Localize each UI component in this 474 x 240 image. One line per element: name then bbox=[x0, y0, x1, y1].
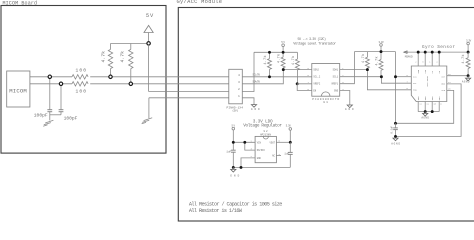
ground GND arrow at LDO bbox=[230, 167, 239, 177]
svg-text:5V: 5V bbox=[146, 13, 154, 19]
svg-text:SCL_2: SCL_2 bbox=[313, 76, 321, 79]
wire pullup rail to 5V bbox=[111, 43, 149, 45]
wire gyro bottom pin stubs bbox=[418, 102, 439, 112]
wire ON/OFF tie to VIN bbox=[245, 142, 255, 150]
wire gyro bottom gnd bus bbox=[418, 111, 439, 113]
svg-text:AGND: AGND bbox=[421, 117, 429, 120]
svg-text:4.7k: 4.7k bbox=[119, 51, 125, 63]
ground AGND arrow at cap bbox=[391, 138, 400, 146]
junction dot 5V/VIN bbox=[232, 141, 235, 144]
wire GND row to gnd symbol bbox=[242, 98, 254, 105]
capacitor C4 1uF (input) bbox=[231, 150, 236, 167]
wire gnd return to gyro GND pin bbox=[396, 84, 462, 136]
svg-text:4.7k: 4.7k bbox=[375, 57, 380, 66]
op IC1 PCA9306 level translator bbox=[312, 64, 340, 105]
resistor R8 4.7k (SDA1 pullup) bbox=[365, 52, 369, 70]
ground GND arrow at IC1 bbox=[345, 105, 354, 111]
net flag at gyro rail left bbox=[404, 51, 413, 59]
svg-text:Voltage Regulator: Voltage Regulator bbox=[243, 124, 282, 129]
ground AGND arrow at gyro bottom bbox=[421, 112, 429, 120]
svg-text:GND: GND bbox=[230, 175, 239, 178]
supply 3.3V circle flag at rail bbox=[379, 41, 385, 52]
pin numbers IC1 left bbox=[308, 67, 310, 91]
ground AGND flag under INT node bbox=[462, 76, 471, 84]
wire 5V row bbox=[149, 91, 229, 93]
gyro U3 bbox=[411, 66, 447, 102]
svg-text:All Resistor is 1/16W: All Resistor is 1/16W bbox=[189, 208, 243, 214]
wire connector to IC1 SCL(5V) bbox=[242, 76, 311, 78]
resistor R10 4.7k (INT pullup) bbox=[466, 52, 470, 76]
svg-text:4.7k: 4.7k bbox=[291, 56, 296, 65]
svg-text:4.7k: 4.7k bbox=[361, 54, 366, 63]
svg-text:MICOM: MICOM bbox=[9, 87, 26, 94]
svg-text:VOUT: VOUT bbox=[269, 141, 275, 144]
wire gyro top pin stubs bbox=[418, 52, 439, 66]
svg-text:GND: GND bbox=[345, 108, 354, 111]
wire 5V pullup rail bbox=[254, 51, 297, 53]
supply 3.3V circle flag at VOUT bbox=[286, 125, 292, 143]
svg-text:5V: 5V bbox=[232, 125, 236, 128]
ground (hatched) left board bbox=[142, 118, 153, 124]
svg-text:Voltage Level Translator: Voltage Level Translator bbox=[293, 41, 336, 46]
supply 5V circle flag bbox=[281, 41, 285, 52]
resistor R6 4.7k (SDA 5V pullup) bbox=[281, 52, 285, 69]
svg-text:SCL1: SCL1 bbox=[333, 76, 339, 79]
svg-text:VIN: VIN bbox=[257, 141, 262, 144]
junction dot R6 bottom / SDA riser bbox=[282, 68, 285, 71]
svg-text:1: 1 bbox=[238, 95, 240, 98]
resistor R1 100 (SCL series) bbox=[72, 75, 88, 79]
svg-text:100: 100 bbox=[76, 89, 87, 95]
svg-text:4: 4 bbox=[238, 74, 240, 77]
svg-text:(5V): (5V) bbox=[232, 108, 238, 112]
svg-text:U1: U1 bbox=[323, 101, 328, 104]
junction dot rail/R5 bbox=[268, 51, 271, 54]
junction dot INT node bbox=[467, 74, 470, 77]
svg-text:AGND: AGND bbox=[462, 81, 470, 84]
junction dots gnd bus bbox=[424, 110, 427, 113]
svg-text:GND: GND bbox=[334, 90, 339, 93]
junction dot 3.3V/VDD branch bbox=[394, 75, 397, 78]
wire SCL row from MICOM bbox=[30, 76, 72, 78]
junction dots gyro top rail bbox=[417, 51, 420, 54]
junction dot R9 bottom bbox=[380, 75, 383, 78]
svg-text:5V: 5V bbox=[281, 41, 285, 44]
junction dot ON/OFF tie bbox=[243, 141, 246, 144]
junction dot R5 bottom on SCL bbox=[268, 75, 271, 78]
svg-text:MICOM Board: MICOM Board bbox=[3, 1, 38, 7]
micom U10 bbox=[7, 71, 30, 107]
wire connector to riser SDA(5V) bbox=[242, 70, 311, 84]
junction dot rail/R6/5V flag bbox=[282, 51, 285, 54]
svg-text:ON/OFF: ON/OFF bbox=[257, 149, 266, 152]
supply 5V triangle bbox=[144, 13, 154, 44]
svg-text:All Resistor / Capacitor is 10: All Resistor / Capacitor is 1005 size bbox=[189, 202, 283, 208]
svg-text:5V --< 3.3V (I2C): 5V --< 3.3V (I2C) bbox=[298, 37, 327, 41]
NC stub bbox=[276, 155, 281, 157]
wire gyro INT to pullup bbox=[447, 75, 468, 77]
junction dot VOUT bbox=[289, 141, 292, 144]
svg-text:VREF2: VREF2 bbox=[313, 83, 321, 86]
svg-text:4.7k: 4.7k bbox=[461, 55, 466, 64]
right module frame bbox=[178, 8, 474, 222]
pin numbers U2 bbox=[251, 140, 281, 159]
ground (hatched) under C1/C2 bbox=[43, 120, 53, 126]
wire VREF1 riser to 3.3V rail bbox=[340, 52, 355, 84]
wire 3.3V drop to gyro VDD and cap bbox=[395, 52, 397, 124]
wire IC1 GND pin to gnd bbox=[340, 91, 350, 106]
left board frame bbox=[1, 6, 166, 154]
capacitor C3 0.1uF bbox=[393, 123, 398, 136]
pin numbers IC1 right bbox=[342, 67, 344, 91]
wire VOUT node bbox=[276, 141, 290, 143]
wire GND drop in left board bbox=[148, 98, 150, 118]
wire SDA row from MICOM bbox=[30, 83, 72, 85]
junction node (ring) on SDA at C2 bbox=[59, 82, 62, 85]
wire gyro top rail bbox=[407, 51, 468, 53]
capacitor C5 1uF (output) bbox=[288, 142, 293, 167]
svg-text:4.7k: 4.7k bbox=[101, 51, 107, 63]
pin numbers gyro top bbox=[415, 61, 438, 64]
svg-text:3.3V: 3.3V bbox=[379, 41, 385, 44]
wire LDO gnd pin drop bbox=[241, 158, 255, 168]
svg-text:4.7k: 4.7k bbox=[263, 56, 268, 65]
junction dot gnd rail / gnd pin bbox=[240, 166, 243, 169]
resistor R2 100 (SDA series) bbox=[72, 82, 88, 86]
svg-text:SDA1: SDA1 bbox=[333, 69, 339, 72]
capacitor C2 100pF bbox=[50, 84, 64, 115]
svg-text:100pF: 100pF bbox=[64, 115, 78, 121]
junction node (ring) R3 bottom bbox=[109, 75, 112, 78]
ground GND arrow at connector bbox=[251, 105, 260, 112]
resistor R5 4.7k (SCL 5V pullup) bbox=[268, 52, 272, 77]
svg-text:AGND: AGND bbox=[391, 143, 400, 146]
pin numbers gyro bottom bbox=[419, 102, 442, 105]
wire 5V to VIN bbox=[233, 141, 255, 143]
resistor R4 4.7k pullup bbox=[129, 44, 133, 84]
supply 5V circle flag at LDO bbox=[232, 125, 236, 151]
wire 5V row riser to pullup rail bbox=[242, 52, 254, 91]
junction dot R8 bottom bbox=[366, 68, 369, 71]
resistor R7 4.7k (VREF2/EN pullup) bbox=[295, 52, 299, 84]
svg-text:100: 100 bbox=[76, 68, 87, 74]
junction dot gyro rail / pullup bbox=[467, 51, 470, 54]
regulator U2 bbox=[255, 130, 276, 163]
svg-text:1uF: 1uF bbox=[226, 150, 231, 153]
resistor R3 4.7k pullup bbox=[108, 44, 112, 77]
pin numbers gyro right bbox=[448, 73, 451, 91]
junction node (ring) R4 bottom bbox=[129, 82, 132, 85]
svg-text:2: 2 bbox=[238, 88, 240, 91]
resistor R9 4.7k (SCL1 pullup) bbox=[379, 52, 383, 77]
svg-text:1uF: 1uF bbox=[284, 153, 289, 156]
svg-text:3: 3 bbox=[238, 81, 240, 84]
wire gnd stem C1/C2 bbox=[49, 112, 51, 121]
connector JP1 PINHD-1X4 bbox=[227, 69, 244, 112]
svg-text:0.1uF: 0.1uF bbox=[391, 126, 394, 134]
wire SDA1 jog to gyro bbox=[340, 70, 412, 90]
wire 3.3V pullup rail bbox=[354, 51, 395, 53]
wire LDO bottom gnd rail bbox=[233, 166, 290, 168]
svg-text:3.3V: 3.3V bbox=[286, 125, 292, 128]
capacitor C1 100pF bbox=[47, 77, 52, 112]
junction dot R7 bottom / VREF2-EN tie bbox=[296, 82, 299, 85]
svg-text:MSAVD: MSAVD bbox=[405, 55, 413, 58]
svg-text:GND: GND bbox=[251, 108, 260, 111]
wire 5V drop to 5V row bbox=[148, 45, 150, 91]
svg-text:4.7k: 4.7k bbox=[277, 54, 282, 63]
svg-text:MPU-3050: MPU-3050 bbox=[426, 75, 429, 86]
junction dot 3.3V cap node bbox=[394, 122, 397, 125]
svg-text:GND: GND bbox=[257, 157, 262, 160]
wire VREF2-EN tie bbox=[297, 84, 312, 91]
junction dot cap gnd node bbox=[394, 135, 397, 138]
wire 3.3V branch to gyro VDD bbox=[396, 76, 412, 78]
svg-text:Gyro Sensor: Gyro Sensor bbox=[422, 45, 455, 50]
svg-text:AP2138N: AP2138N bbox=[260, 133, 271, 136]
svg-text:3.3V: 3.3V bbox=[466, 39, 472, 42]
wire 3.3V to gyro VLOGIC bbox=[396, 90, 454, 123]
svg-text:SDA2: SDA2 bbox=[313, 69, 319, 72]
wire GND row bbox=[149, 97, 229, 99]
pin numbers gyro left bbox=[407, 74, 409, 90]
junction node (ring) 5V rail bbox=[147, 42, 150, 45]
svg-text:U2: U2 bbox=[264, 130, 268, 133]
supply 3.3V circle flag at gyro bbox=[466, 39, 472, 52]
svg-text:100pF: 100pF bbox=[34, 112, 48, 118]
svg-text:Gy/ACC Module: Gy/ACC Module bbox=[177, 0, 223, 5]
junction node (ring) on SCL at C1 bbox=[48, 75, 51, 78]
svg-text:VREF1: VREF1 bbox=[331, 83, 339, 86]
wire SCL1 jog to gyro bbox=[340, 77, 412, 84]
junction dot rail/R9/3.3V flag bbox=[380, 50, 383, 53]
junction dot gnd rail / C4 bbox=[232, 166, 235, 169]
